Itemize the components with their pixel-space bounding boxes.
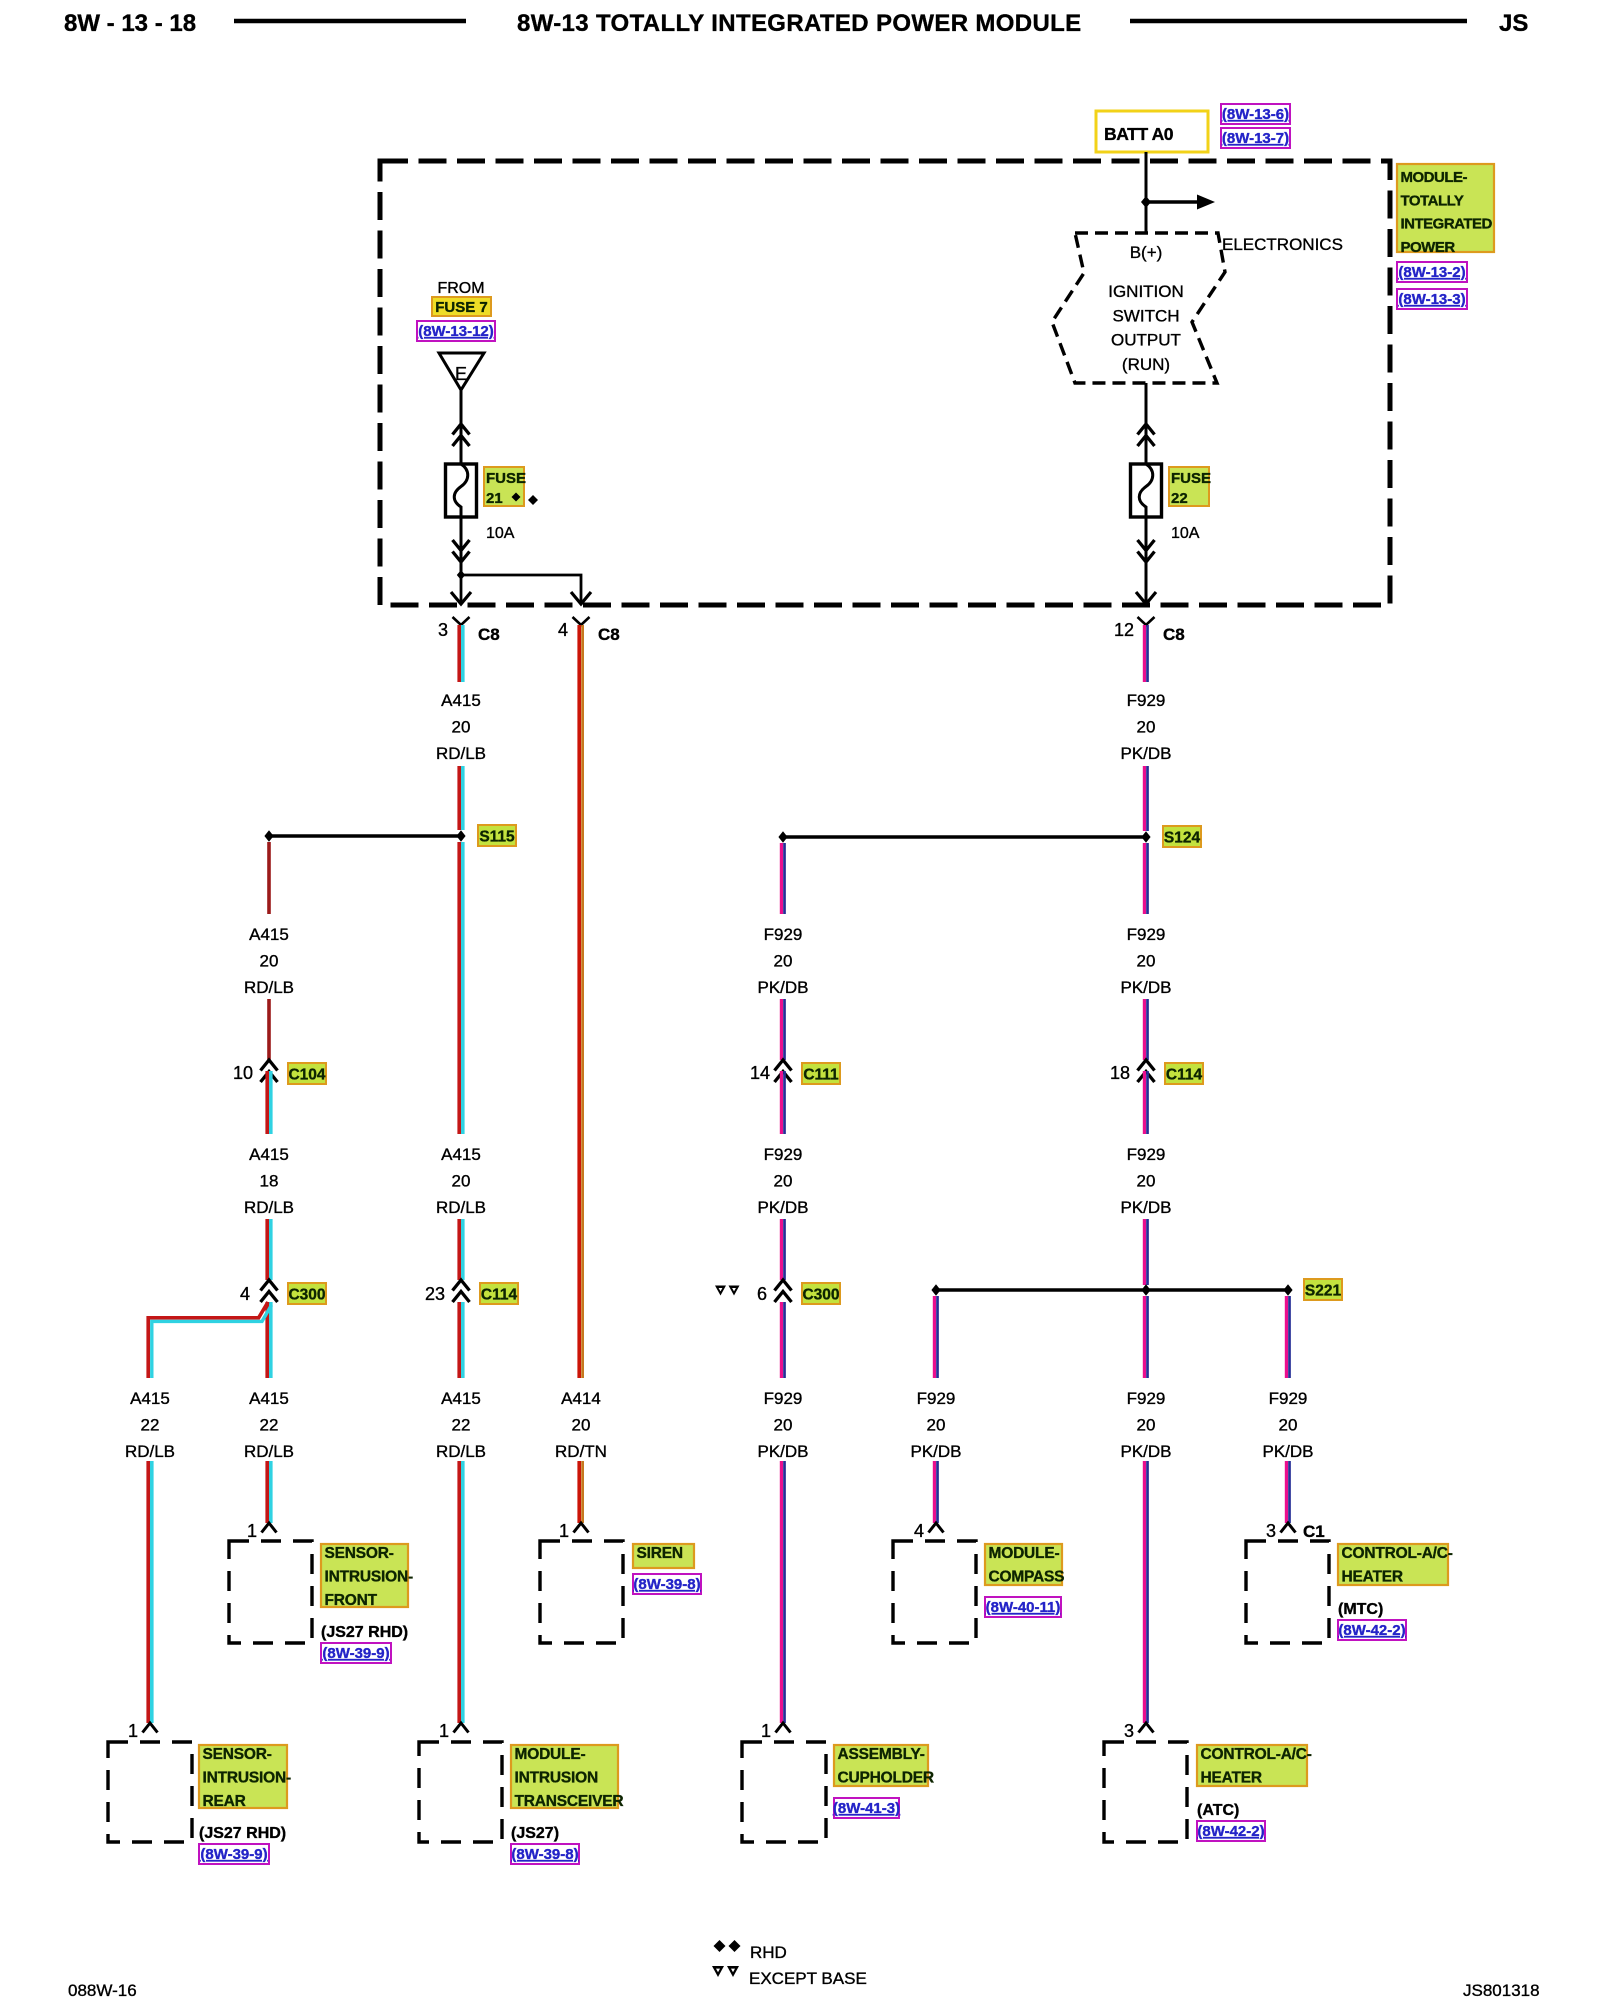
legend RHD diamonds bbox=[714, 1940, 787, 1962]
svg-text:COMPASS: COMPASS bbox=[989, 1569, 1065, 1586]
svg-text:20: 20 bbox=[1137, 1416, 1156, 1435]
svg-text:SENSOR-: SENSOR- bbox=[203, 1746, 272, 1763]
svg-text:23: 23 bbox=[425, 1284, 445, 1304]
svg-text:A415: A415 bbox=[441, 1145, 481, 1164]
svg-text:14: 14 bbox=[750, 1063, 770, 1083]
svg-text:20: 20 bbox=[1279, 1416, 1298, 1435]
svg-text:(JS27 RHD): (JS27 RHD) bbox=[321, 1624, 408, 1641]
label F929 20 PK/DB col7 row2 bbox=[1120, 925, 1171, 997]
svg-text:RD/LB: RD/LB bbox=[436, 744, 486, 763]
svg-text:ASSEMBLY-: ASSEMBLY- bbox=[838, 1746, 925, 1763]
splice S115 bbox=[269, 834, 461, 837]
wire A414 20 RD/TN from C8 pin4 bbox=[579, 625, 582, 1378]
wire A415 22 to sensor-intrusion-front connector bbox=[267, 1461, 271, 1523]
wire F929 below C114 bbox=[1144, 1071, 1147, 1134]
svg-text:JS801318: JS801318 bbox=[1463, 1981, 1540, 2000]
except-base triangles at C300 pin6 bbox=[715, 1286, 740, 1296]
svg-text:10A: 10A bbox=[1171, 525, 1200, 542]
connector chevrons on fuse 21 feed bbox=[453, 424, 470, 446]
svg-text:A415: A415 bbox=[130, 1389, 170, 1408]
svg-text:22: 22 bbox=[452, 1416, 471, 1435]
label S221 bbox=[1304, 1279, 1342, 1300]
svg-text:INTRUSION-: INTRUSION- bbox=[203, 1770, 291, 1787]
svg-text:10A: 10A bbox=[486, 525, 515, 542]
svg-text:PK/DB: PK/DB bbox=[1120, 978, 1171, 997]
label IGNITION SWITCH OUTPUT (RUN) bbox=[1108, 282, 1184, 374]
label F929 20 PK/DB col5 row4 bbox=[757, 1389, 808, 1461]
label A415 18 RD/LB col2 row3 bbox=[244, 1145, 294, 1217]
svg-text:20: 20 bbox=[260, 952, 279, 971]
ignition switch output cloud (dashed polygon) bbox=[1052, 233, 1225, 383]
wire fuse21 to C8 pin 3 bbox=[460, 575, 463, 603]
svg-text:A415: A415 bbox=[249, 1389, 289, 1408]
svg-text:ELECTRONICS: ELECTRONICS bbox=[1222, 235, 1343, 254]
fuse F21 bbox=[446, 464, 477, 517]
svg-text:SIREN: SIREN bbox=[637, 1545, 683, 1562]
svg-text:CONTROL-A/C-: CONTROL-A/C- bbox=[1201, 1746, 1312, 1763]
svg-text:20: 20 bbox=[1137, 718, 1156, 737]
svg-text:1: 1 bbox=[128, 1721, 138, 1741]
svg-text:FRONT: FRONT bbox=[325, 1592, 378, 1609]
svg-text:C1: C1 bbox=[1303, 1522, 1325, 1541]
svg-text:S124: S124 bbox=[1164, 830, 1201, 847]
svg-text:PK/DB: PK/DB bbox=[757, 978, 808, 997]
connector C8 pin 12 bbox=[1114, 617, 1185, 644]
wire A415 to C114 bbox=[459, 1219, 463, 1280]
svg-text:SWITCH: SWITCH bbox=[1112, 307, 1179, 326]
wire fuse7 feed into fuse 21 bbox=[460, 390, 463, 464]
svg-text:F929: F929 bbox=[1127, 691, 1166, 710]
svg-text:OUTPUT: OUTPUT bbox=[1111, 331, 1181, 350]
svg-text:CONTROL-A/C-: CONTROL-A/C- bbox=[1342, 1545, 1453, 1562]
svg-text:8W - 13 - 18: 8W - 13 - 18 bbox=[64, 10, 196, 37]
svg-text:FUSE: FUSE bbox=[486, 470, 526, 487]
svg-text:C8: C8 bbox=[598, 625, 620, 644]
label F929 20 PK/DB col7 row3 bbox=[1120, 1145, 1171, 1217]
svg-text:C300: C300 bbox=[288, 1287, 325, 1304]
svg-text:4: 4 bbox=[240, 1284, 250, 1304]
wire A415 20 RD/LB below C8 pin3 bbox=[459, 625, 463, 682]
wire A415 18 below C104 bbox=[267, 1071, 271, 1134]
svg-text:HEATER: HEATER bbox=[1201, 1770, 1262, 1787]
label A415 22 RD/LB col3 row4 bbox=[436, 1389, 486, 1461]
svg-text:20: 20 bbox=[452, 1172, 471, 1191]
svg-text:(8W-39-8): (8W-39-8) bbox=[511, 1846, 578, 1863]
label MODULE-COMPASS bbox=[985, 1544, 1064, 1586]
splice S124 bbox=[783, 835, 1146, 838]
svg-text:(8W-13-2): (8W-13-2) bbox=[1398, 264, 1465, 281]
wire F929 below S221 middle bbox=[1144, 1296, 1147, 1378]
svg-text:20: 20 bbox=[1137, 1172, 1156, 1191]
svg-text:A415: A415 bbox=[441, 1389, 481, 1408]
svg-text:(JS27 RHD): (JS27 RHD) bbox=[199, 1825, 286, 1842]
svg-text:SENSOR-: SENSOR- bbox=[325, 1545, 394, 1562]
svg-text:A415: A415 bbox=[441, 691, 481, 710]
svg-text:TRANSCEIVER: TRANSCEIVER bbox=[515, 1793, 624, 1810]
link 8W-13-3 bbox=[1397, 289, 1467, 309]
svg-text:(8W-39-9): (8W-39-9) bbox=[322, 1645, 389, 1662]
svg-text:TOTALLY: TOTALLY bbox=[1401, 192, 1464, 209]
wire below fuse 21 bbox=[460, 517, 463, 575]
wire F929 to C111 bbox=[781, 999, 784, 1060]
svg-text:1: 1 bbox=[247, 1521, 257, 1541]
header rule left bbox=[234, 19, 466, 24]
wire BATT A0 to TIPM B(+) bbox=[1145, 152, 1148, 233]
svg-text:20: 20 bbox=[572, 1416, 591, 1435]
link 8W-39-9 (rear sensor) bbox=[199, 1844, 269, 1864]
link 8W-41-3 bbox=[833, 1798, 900, 1818]
svg-text:F929: F929 bbox=[1127, 1145, 1166, 1164]
component siren (dashed box) bbox=[540, 1541, 623, 1643]
label C111 bbox=[802, 1063, 840, 1084]
wire A415 22 to intrusion transceiver bbox=[459, 1461, 463, 1723]
component control-a/c-heater ATC (dashed box) bbox=[1104, 1742, 1187, 1842]
svg-text:RD/LB: RD/LB bbox=[436, 1442, 486, 1461]
wire A415 to C300 bbox=[267, 1219, 271, 1280]
svg-text:F929: F929 bbox=[764, 1145, 803, 1164]
connector C8 pin 4 bbox=[558, 617, 620, 644]
svg-text:20: 20 bbox=[774, 1172, 793, 1191]
wire F929 below C300 to cupholder bbox=[781, 1302, 784, 1378]
component module-compass (dashed box) bbox=[893, 1541, 976, 1643]
svg-text:20: 20 bbox=[774, 1416, 793, 1435]
arrowhead onto module edge pin 12 bbox=[1136, 592, 1156, 604]
svg-text:3: 3 bbox=[1124, 1721, 1134, 1741]
wire A415 22 below C114 bbox=[459, 1302, 463, 1378]
wire ignition switch output to fuse 22 bbox=[1145, 383, 1148, 464]
svg-text:18: 18 bbox=[260, 1172, 279, 1191]
svg-text:RD/LB: RD/LB bbox=[244, 1442, 294, 1461]
svg-text:PK/DB: PK/DB bbox=[757, 1198, 808, 1217]
label F929 20 PK/DB col5 row3 bbox=[757, 1145, 808, 1217]
svg-text:(MTC): (MTC) bbox=[1338, 1601, 1383, 1618]
svg-text:BATT A0: BATT A0 bbox=[1104, 124, 1174, 144]
svg-text:(8W-40-11): (8W-40-11) bbox=[986, 1599, 1061, 1616]
label F929 20 PK/DB col6 row4 bbox=[910, 1389, 961, 1461]
svg-text:A415: A415 bbox=[249, 1145, 289, 1164]
battery feed box BATT A0 bbox=[1096, 111, 1208, 152]
off-page connector triangle E bbox=[439, 353, 484, 390]
svg-text:(ATC): (ATC) bbox=[1197, 1802, 1239, 1819]
connector C111 pin 14 bbox=[750, 1060, 792, 1083]
svg-text:CUPHOLDER: CUPHOLDER bbox=[838, 1770, 934, 1787]
svg-text:FROM: FROM bbox=[437, 280, 484, 297]
svg-text:4: 4 bbox=[558, 620, 568, 640]
legend EXCEPT BASE triangles bbox=[712, 1966, 867, 1988]
svg-text:RD/TN: RD/TN bbox=[555, 1442, 607, 1461]
svg-text:IGNITION: IGNITION bbox=[1108, 282, 1184, 301]
svg-text:PK/DB: PK/DB bbox=[1120, 1442, 1171, 1461]
svg-text:1: 1 bbox=[761, 1721, 771, 1741]
svg-text:PK/DB: PK/DB bbox=[1120, 1198, 1171, 1217]
label C104 bbox=[288, 1063, 326, 1084]
link 8W-42-2 (MTC) bbox=[1338, 1620, 1406, 1640]
wire A415 below S115 bbox=[459, 842, 463, 1134]
wire A414 to siren connector bbox=[579, 1461, 582, 1523]
connector C300 pin 4 bbox=[240, 1280, 278, 1304]
arrow B(+) feed to electronics bbox=[1146, 195, 1215, 210]
connector C114 pin 23 bbox=[425, 1280, 470, 1304]
svg-text:POWER: POWER bbox=[1401, 239, 1456, 256]
svg-text:FUSE: FUSE bbox=[1171, 470, 1211, 487]
connector C114 pin 18 bbox=[1110, 1060, 1155, 1083]
wire A415 22 below C300 to sensor-intrusion-front bbox=[267, 1302, 271, 1378]
label FUSE 7 (highlighted) bbox=[432, 297, 491, 316]
connector chevrons below fuse 21 bbox=[453, 540, 470, 562]
svg-text:PK/DB: PK/DB bbox=[1120, 744, 1171, 763]
wire F929 to control a/c heater ATC bbox=[1144, 1461, 1147, 1723]
svg-text:RD/LB: RD/LB bbox=[244, 978, 294, 997]
wire A415 to C104 bbox=[267, 999, 271, 1060]
svg-text:(8W-13-12): (8W-13-12) bbox=[418, 323, 494, 340]
wire F929 from S221 right bbox=[1286, 1296, 1289, 1378]
svg-text:F929: F929 bbox=[1127, 925, 1166, 944]
link 8W-13-6 bbox=[1221, 104, 1290, 124]
svg-text:10: 10 bbox=[233, 1063, 253, 1083]
svg-text:18: 18 bbox=[1110, 1063, 1130, 1083]
splice S221 bbox=[936, 1288, 1288, 1291]
svg-text:C104: C104 bbox=[288, 1067, 325, 1084]
svg-text:RHD: RHD bbox=[750, 1943, 787, 1962]
svg-text:FUSE 7: FUSE 7 bbox=[435, 299, 488, 316]
wire F929 below S124 bbox=[1144, 843, 1147, 914]
svg-text:E: E bbox=[455, 364, 467, 384]
svg-text:B(+): B(+) bbox=[1130, 243, 1163, 262]
svg-text:C111: C111 bbox=[803, 1067, 839, 1084]
svg-text:PK/DB: PK/DB bbox=[910, 1442, 961, 1461]
connector pin 1 sensor-intrusion-front bbox=[247, 1521, 277, 1541]
svg-text:20: 20 bbox=[774, 952, 793, 971]
svg-text:(RUN): (RUN) bbox=[1122, 355, 1170, 374]
svg-text:MODULE-: MODULE- bbox=[989, 1545, 1060, 1562]
label C114 (col7) bbox=[1165, 1063, 1203, 1084]
svg-text:RD/LB: RD/LB bbox=[125, 1442, 175, 1461]
wire F929 to splice S124 bbox=[1144, 766, 1147, 831]
svg-text:REAR: REAR bbox=[203, 1793, 246, 1810]
link 8W-13-7 bbox=[1221, 128, 1290, 148]
wire below fuse 22 bbox=[1145, 517, 1148, 603]
junction dot on B(+) feed bbox=[1141, 196, 1151, 208]
component control-a/c-heater MTC (dashed box) bbox=[1246, 1541, 1329, 1643]
svg-text:20: 20 bbox=[927, 1416, 946, 1435]
svg-text:PK/DB: PK/DB bbox=[1262, 1442, 1313, 1461]
connector pin 1 sensor-intrusion-rear bbox=[128, 1721, 158, 1741]
wire F929 to S221 bbox=[1144, 1219, 1147, 1285]
svg-text:INTRUSION: INTRUSION bbox=[515, 1770, 598, 1787]
component sensor-intrusion-rear (dashed box) bbox=[108, 1742, 192, 1842]
svg-text:4: 4 bbox=[914, 1521, 924, 1541]
svg-text:1: 1 bbox=[559, 1521, 569, 1541]
svg-text:INTRUSION-: INTRUSION- bbox=[325, 1569, 413, 1586]
label ASSEMBLY-CUPHOLDER bbox=[834, 1745, 934, 1787]
module boundary - Totally Integrated Power Module (dashed) bbox=[380, 161, 1390, 605]
label CONTROL-A/C-HEATER (ATC) bbox=[1197, 1745, 1312, 1787]
label MODULE-INTRUSION TRANSCEIVER bbox=[511, 1745, 623, 1810]
arrowhead onto module edge pin 3 bbox=[451, 592, 471, 604]
label F929 20 PK/DB col5 row2 bbox=[757, 925, 808, 997]
label C300 (col5) bbox=[802, 1283, 840, 1304]
svg-text:22: 22 bbox=[141, 1416, 160, 1435]
svg-text:(JS27): (JS27) bbox=[511, 1825, 559, 1842]
svg-text:C8: C8 bbox=[1163, 625, 1185, 644]
wire A415 22 to sensor-intrusion-rear bbox=[148, 1461, 152, 1723]
link 8W-39-9 (front sensor) bbox=[321, 1643, 391, 1663]
label A415 20 RD/LB col3 row3 bbox=[436, 1145, 486, 1217]
svg-text:20: 20 bbox=[452, 718, 471, 737]
connector pin 3 control a/c heater ATC bbox=[1124, 1721, 1154, 1741]
label SENSOR-INTRUSION-FRONT bbox=[321, 1544, 413, 1609]
wire branch C300 to rear sensor (diagonal) bbox=[148, 1302, 271, 1378]
svg-text:A415: A415 bbox=[249, 925, 289, 944]
svg-text:MODULE-: MODULE- bbox=[515, 1746, 586, 1763]
connector C104 pin 10 bbox=[233, 1060, 278, 1083]
svg-text:21: 21 bbox=[486, 490, 503, 507]
svg-text:F929: F929 bbox=[1269, 1389, 1308, 1408]
svg-text:S221: S221 bbox=[1305, 1283, 1342, 1300]
label S124 bbox=[1163, 826, 1201, 847]
svg-text:S115: S115 bbox=[479, 829, 515, 846]
link 8W-42-2 (ATC) bbox=[1197, 1821, 1265, 1841]
wire F929 to control a/c heater MTC bbox=[1286, 1461, 1289, 1523]
label FUSE 22 (highlighted) bbox=[1169, 467, 1211, 507]
module label MODULE-TOTALLY INTEGRATED POWER bbox=[1397, 164, 1494, 256]
connector chevrons on fuse 22 feed bbox=[1138, 424, 1155, 446]
label A414 20 RD/TN bbox=[555, 1389, 607, 1461]
arrowhead onto module edge pin 4 bbox=[571, 592, 591, 604]
label FUSE 21 (highlighted) with RHD diamonds bbox=[484, 467, 538, 507]
connector pin 1 assembly-cupholder bbox=[761, 1721, 791, 1741]
svg-text:22: 22 bbox=[260, 1416, 279, 1435]
svg-text:3: 3 bbox=[438, 620, 448, 640]
connector pin 4 module-compass bbox=[914, 1521, 944, 1541]
svg-text:088W-16: 088W-16 bbox=[68, 1981, 137, 2000]
component module-intrusion transceiver (dashed box) bbox=[419, 1742, 502, 1842]
connector C300 pin 6 bbox=[757, 1280, 792, 1304]
component sensor-intrusion-front (dashed box) bbox=[229, 1541, 312, 1643]
svg-text:(8W-42-2): (8W-42-2) bbox=[1338, 1622, 1405, 1639]
svg-text:20: 20 bbox=[1137, 952, 1156, 971]
link 8W-13-2 bbox=[1397, 262, 1467, 282]
label F929 20 PK/DB col7 row4 bbox=[1120, 1389, 1171, 1461]
connector chevrons below fuse 22 bbox=[1138, 540, 1155, 562]
label C114 (col3) bbox=[480, 1283, 518, 1304]
fuse F22 bbox=[1131, 464, 1162, 517]
label SIREN bbox=[633, 1544, 694, 1568]
label A415 20 RD/LB col2 row2 bbox=[244, 925, 294, 997]
svg-text:6: 6 bbox=[757, 1284, 767, 1304]
svg-text:1: 1 bbox=[439, 1721, 449, 1741]
svg-text:8W-13 TOTALLY INTEGRATED POWER: 8W-13 TOTALLY INTEGRATED POWER MODULE bbox=[517, 10, 1082, 37]
svg-text:A414: A414 bbox=[561, 1389, 601, 1408]
label F929 20 PK/DB col7 row1 bbox=[1120, 691, 1171, 763]
svg-text:(8W-13-6): (8W-13-6) bbox=[1222, 106, 1289, 123]
label CONTROL-A/C-HEATER (MTC) bbox=[1338, 1544, 1453, 1586]
connector C8 pin 3 bbox=[438, 617, 500, 644]
svg-text:F929: F929 bbox=[764, 925, 803, 944]
svg-text:F929: F929 bbox=[1127, 1389, 1166, 1408]
svg-text:EXCEPT BASE: EXCEPT BASE bbox=[749, 1969, 867, 1988]
svg-text:C114: C114 bbox=[481, 1287, 518, 1304]
label F929 20 PK/DB col8 row4 bbox=[1262, 1389, 1313, 1461]
component assembly-cupholder (dashed box) bbox=[742, 1742, 826, 1842]
connector pin 1 siren bbox=[559, 1521, 589, 1541]
svg-text:F929: F929 bbox=[764, 1389, 803, 1408]
wire A415 to splice S115 bbox=[459, 766, 463, 830]
svg-text:INTEGRATED: INTEGRATED bbox=[1401, 216, 1493, 233]
svg-text:C300: C300 bbox=[802, 1287, 839, 1304]
wire F929 to assembly-cupholder bbox=[781, 1461, 784, 1723]
link 8W-13-12 bbox=[417, 321, 495, 341]
svg-text:22: 22 bbox=[1171, 490, 1188, 507]
wire branch to C8 pin 4 bbox=[461, 575, 581, 603]
wire F929 from S124 left branch bbox=[781, 843, 784, 914]
label A415 22 RD/LB col1 row4 bbox=[125, 1389, 175, 1461]
label A415 22 RD/LB col2 row4 bbox=[244, 1389, 294, 1461]
svg-text:3: 3 bbox=[1266, 1521, 1276, 1541]
wire F929 20 PK/DB below C8 pin12 bbox=[1144, 625, 1147, 682]
svg-text:MODULE-: MODULE- bbox=[1401, 169, 1468, 186]
wire F929 below C111 bbox=[781, 1071, 784, 1134]
wire A415 from S115 left branch bbox=[267, 842, 271, 914]
svg-text:(8W-39-8): (8W-39-8) bbox=[633, 1576, 700, 1593]
label SENSOR-INTRUSION-REAR bbox=[199, 1745, 291, 1810]
link 8W-39-8 (siren) bbox=[633, 1574, 701, 1594]
connector pin 3 C1 control a/c heater MTC bbox=[1266, 1521, 1325, 1541]
svg-text:C8: C8 bbox=[478, 625, 500, 644]
svg-text:12: 12 bbox=[1114, 620, 1134, 640]
label S115 bbox=[478, 825, 516, 846]
svg-text:PK/DB: PK/DB bbox=[757, 1442, 808, 1461]
label A415 20 RD/LB bbox=[436, 691, 486, 763]
svg-text:C114: C114 bbox=[1166, 1067, 1203, 1084]
wire F929 to module-compass connector bbox=[934, 1461, 937, 1523]
svg-text:JS: JS bbox=[1499, 10, 1528, 37]
label C300 (col2) bbox=[288, 1283, 326, 1304]
wire F929 to C114 pin18 bbox=[1144, 999, 1147, 1060]
svg-text:HEATER: HEATER bbox=[1342, 1569, 1403, 1586]
svg-text:RD/LB: RD/LB bbox=[436, 1198, 486, 1217]
link 8W-39-8 (transceiver) bbox=[511, 1844, 579, 1864]
wire F929 to C300 pin6 bbox=[781, 1219, 784, 1280]
svg-text:F929: F929 bbox=[917, 1389, 956, 1408]
wire F929 from S221 left to compass bbox=[934, 1296, 937, 1378]
svg-text:(8W-13-3): (8W-13-3) bbox=[1398, 291, 1465, 308]
svg-text:(8W-41-3): (8W-41-3) bbox=[833, 1800, 900, 1817]
svg-text:(8W-42-2): (8W-42-2) bbox=[1197, 1823, 1264, 1840]
link 8W-40-11 bbox=[985, 1597, 1061, 1617]
svg-text:(8W-13-7): (8W-13-7) bbox=[1222, 130, 1289, 147]
junction dot below fuse 21 bbox=[457, 570, 465, 580]
svg-text:RD/LB: RD/LB bbox=[244, 1198, 294, 1217]
svg-text:(8W-39-9): (8W-39-9) bbox=[200, 1846, 267, 1863]
header rule right bbox=[1130, 19, 1467, 24]
connector pin 1 module-intrusion transceiver bbox=[439, 1721, 469, 1741]
